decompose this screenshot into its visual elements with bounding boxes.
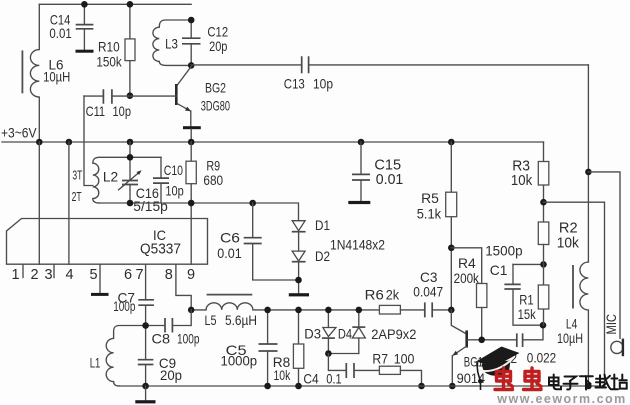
node tank bottom / R9-pin9 [188, 200, 195, 207]
transistor BG2 [176, 67, 230, 127]
svg-text:100: 100 [394, 351, 415, 367]
resistor R1 [518, 264, 549, 325]
svg-text:2k: 2k [386, 286, 400, 302]
svg-text:20p: 20p [209, 38, 227, 54]
resistor R7 [372, 351, 421, 386]
svg-text:10p: 10p [113, 103, 132, 119]
svg-text:8: 8 [165, 267, 173, 283]
capacitor C2 [502, 325, 556, 366]
diode D3 [304, 310, 336, 354]
svg-text:10k: 10k [274, 367, 292, 383]
watermark 站 [611, 375, 627, 390]
node L5 wire / C5 [264, 307, 271, 314]
inductor L3 [153, 20, 191, 65]
svg-text:2AP9x2: 2AP9x2 [371, 326, 416, 342]
watermark 虫 2 [524, 368, 542, 390]
svg-text:D3: D3 [304, 326, 321, 342]
watermark 子 [564, 377, 578, 390]
node L5 wire / D3 [325, 307, 332, 314]
svg-text:3T: 3T [72, 168, 82, 183]
svg-text:C4: C4 [303, 371, 318, 387]
ground bar (pin 5) [91, 293, 109, 296]
supply rail +3~6V [2, 141, 544, 143]
node tank bottom / C6 [249, 200, 256, 207]
inductor L6 [22, 4, 70, 142]
svg-text:C8: C8 [152, 331, 171, 347]
wire IC pin 8 to L5 node [176, 264, 191, 310]
node bottom rail / R8 [295, 383, 302, 390]
resistor R8 [273, 310, 304, 386]
svg-text:C1: C1 [490, 262, 508, 278]
diode D4 [338, 310, 365, 354]
node L5 wire / R8 [295, 307, 302, 314]
svg-text:0.022: 0.022 [527, 349, 557, 365]
wire C13 link [191, 64, 588, 66]
capacitor C14 [49, 4, 93, 49]
svg-text:L5: L5 [205, 312, 217, 328]
node D3/D4/C4 [325, 350, 332, 357]
svg-text:C11: C11 [86, 103, 106, 119]
svg-text:R10: R10 [98, 39, 120, 55]
capacitor C3 [413, 269, 451, 317]
wire IC pin 5 to ground [99, 264, 101, 293]
node C1/R1/C2 [540, 322, 547, 329]
ground bar (D2) [289, 293, 309, 296]
svg-text:1N4148x2: 1N4148x2 [330, 237, 385, 253]
node rail/R5 [448, 139, 455, 146]
capacitor C8 [146, 310, 200, 347]
svg-text:C13: C13 [284, 75, 305, 91]
svg-text:5: 5 [89, 267, 97, 283]
svg-text:5/15p: 5/15p [133, 198, 168, 214]
node L3/C12 top [188, 17, 195, 24]
svg-text:3: 3 [44, 267, 52, 283]
resistor R4 [454, 255, 487, 340]
node tank top / C16 [127, 154, 134, 161]
node R10 bottom / base wire [127, 92, 134, 99]
svg-text:10p: 10p [313, 75, 333, 91]
node top rail / R10 [127, 1, 134, 8]
bottom rail [120, 385, 605, 387]
wire C13 column down [587, 65, 589, 262]
resistor R2 [538, 220, 579, 265]
svg-text:200k: 200k [454, 270, 480, 286]
node bottom rail / L4 [585, 383, 592, 390]
resistor R3 [511, 142, 549, 222]
svg-text:100p: 100p [177, 331, 200, 347]
node C13 column / mic branch [585, 169, 592, 176]
svg-text:15k: 15k [518, 306, 537, 322]
node BG1 / R4 [478, 337, 485, 344]
svg-text:L2: L2 [103, 168, 119, 184]
capacitor C9 [138, 326, 182, 387]
svg-text:0.1: 0.1 [326, 371, 342, 387]
svg-text:0.01: 0.01 [217, 245, 242, 261]
node rail/tank [127, 139, 134, 146]
svg-text:20p: 20p [160, 367, 182, 383]
svg-text:D4: D4 [338, 326, 352, 342]
inductor L4 [557, 262, 588, 386]
svg-text:+3~6V: +3~6V [1, 125, 37, 141]
svg-text:Q5337: Q5337 [140, 242, 181, 258]
svg-text:3DG80: 3DG80 [201, 97, 230, 113]
wire R3 node to mic column [544, 202, 605, 386]
node L5 wire / D4-R6 [356, 307, 363, 314]
svg-text:L3: L3 [165, 36, 178, 52]
node rail/BG2-R9 [188, 139, 195, 146]
svg-text:C10: C10 [164, 162, 183, 178]
tank bottom wire [100, 203, 299, 221]
capacitor C5 [221, 310, 278, 386]
node R3/R2/mic feed [540, 199, 547, 206]
microphone MIC [604, 314, 623, 356]
node bottom rail / BG1 emitter [449, 383, 456, 390]
emitter ground bar (BG2) [183, 126, 201, 129]
svg-text:D1: D1 [315, 217, 330, 233]
ground bar (C14) [76, 50, 94, 53]
svg-text:100p: 100p [113, 298, 135, 314]
node D2 / C6 return [295, 277, 302, 284]
svg-text:680: 680 [203, 172, 223, 188]
node rail/C15 [358, 139, 365, 146]
svg-text:1500p: 1500p [485, 242, 523, 258]
svg-text:10k: 10k [511, 172, 533, 189]
wire BG2 emitter bar to rail [190, 129, 192, 142]
node R5 / R4 branch [448, 245, 455, 252]
pin tick 3-4 [53, 264, 55, 277]
capacitor C15 [352, 142, 403, 201]
variable capacitor C16 [119, 157, 168, 214]
node bottom rail / R7 [418, 383, 425, 390]
svg-text:R4: R4 [458, 255, 476, 271]
wire top rail [39, 3, 191, 5]
svg-text:L1: L1 [90, 355, 101, 371]
capacitor C7 on pin 7 [113, 264, 154, 325]
svg-text:5.1k: 5.1k [417, 205, 442, 221]
svg-text:C6: C6 [220, 230, 240, 246]
wire R2 bottom node to C1 [513, 263, 544, 265]
svg-text:0.01: 0.01 [376, 171, 404, 188]
node L3/C12 bottom [188, 62, 195, 69]
svg-text:7: 7 [135, 267, 143, 283]
svg-text:10µH: 10µH [557, 330, 583, 346]
inductor L1 [90, 326, 146, 387]
node rail/pin4 [66, 139, 73, 146]
svg-text:R5: R5 [421, 190, 439, 206]
capacitor C10 [153, 157, 184, 203]
resistor R10 [96, 4, 135, 95]
wire R5 node to R4 [451, 248, 481, 284]
transistor BG1 [451, 310, 516, 386]
svg-text:D2: D2 [315, 248, 330, 264]
capacitor C12 [182, 20, 228, 65]
svg-text:5.6µH: 5.6µH [225, 312, 257, 328]
svg-text:1000p: 1000p [221, 353, 258, 369]
svg-text:R6: R6 [365, 286, 384, 302]
capacitor C4 [303, 363, 379, 387]
watermark 虫 1 [495, 368, 513, 390]
ground bar (bottom rail) [135, 386, 155, 403]
svg-text:10µH: 10µH [43, 69, 70, 85]
wire L6 through rail to IC pin 2 [38, 142, 40, 264]
inductor L2 [72, 157, 119, 204]
svg-text:2T: 2T [72, 189, 82, 204]
diode D2 [292, 248, 330, 293]
watermark 电 [549, 375, 561, 390]
resistor R6 [365, 286, 425, 314]
node tank bottom / C16 [127, 200, 134, 207]
resistor R5 [417, 142, 457, 310]
node rail/L6-pin2 [36, 139, 43, 146]
node bottom rail / C5 [264, 383, 271, 390]
svg-text:1: 1 [11, 267, 19, 283]
svg-text:0.047: 0.047 [413, 283, 443, 299]
watermark 载 [596, 375, 611, 390]
svg-text:4: 4 [65, 267, 73, 283]
svg-text:www.eeworm.com: www.eeworm.com [496, 392, 625, 405]
diode D1 [292, 217, 330, 251]
svg-text:0.01: 0.01 [49, 25, 71, 41]
inductor L5 [191, 295, 379, 329]
svg-text:150k: 150k [96, 54, 122, 70]
node pin8/L5/C8 [188, 307, 195, 314]
node top rail / C14 [81, 1, 88, 8]
pin numbers 1-9 [11, 267, 195, 283]
wire mic signal branch [588, 172, 620, 338]
svg-text:10k: 10k [557, 235, 580, 252]
watermark graduation cap [476, 347, 520, 391]
svg-text:R7: R7 [372, 351, 388, 367]
node bottom rail / C9 ground [142, 383, 149, 390]
wire C11 to L2 tap [84, 96, 93, 185]
wire D3 node to C4 [328, 354, 346, 371]
capacitor C13 [284, 56, 333, 91]
wire rail to IC pin 4 [68, 142, 70, 264]
capacitor C1 [485, 242, 543, 325]
svg-text:MIC: MIC [604, 314, 619, 335]
capacitor C11 [84, 89, 176, 119]
tank top wire [100, 156, 162, 158]
wire rail to tank top [129, 142, 131, 157]
watermark 下 [580, 376, 593, 389]
resistor R9 [186, 142, 223, 264]
IC Q5337 box [7, 219, 208, 265]
node R2/R1/C1 [540, 261, 547, 268]
svg-text:9: 9 [187, 267, 195, 283]
svg-text:BG2: BG2 [205, 80, 226, 96]
svg-text:10p: 10p [165, 183, 184, 199]
node C7/C8/C9/L1 [142, 322, 149, 329]
node C3/R5/BG1 [448, 307, 455, 314]
wire D3-D4 bottom join [328, 353, 358, 355]
capacitor C6 [217, 203, 298, 280]
svg-text:2: 2 [30, 267, 38, 283]
svg-text:6: 6 [124, 267, 132, 283]
ground bar (C15) [348, 201, 370, 204]
pin tick 1-2 [22, 264, 24, 277]
